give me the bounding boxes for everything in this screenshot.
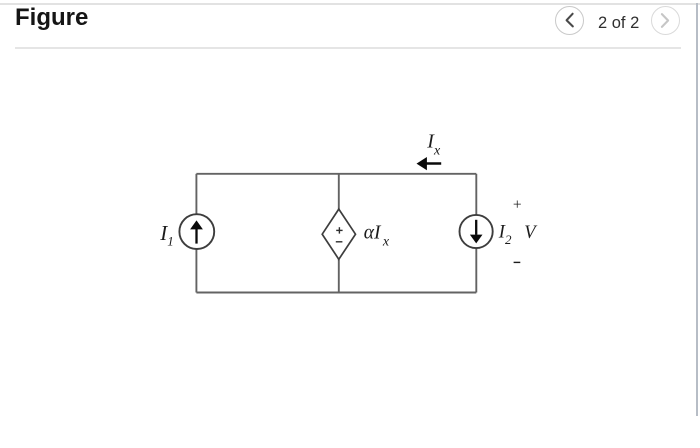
svg-text:αIx: αIx (364, 223, 390, 250)
svg-text:+: + (513, 197, 522, 214)
svg-text:I2: I2 (498, 222, 512, 246)
svg-text:I1: I1 (159, 221, 174, 248)
svg-text:Ix: Ix (426, 130, 441, 158)
svg-text:V: V (524, 223, 538, 243)
